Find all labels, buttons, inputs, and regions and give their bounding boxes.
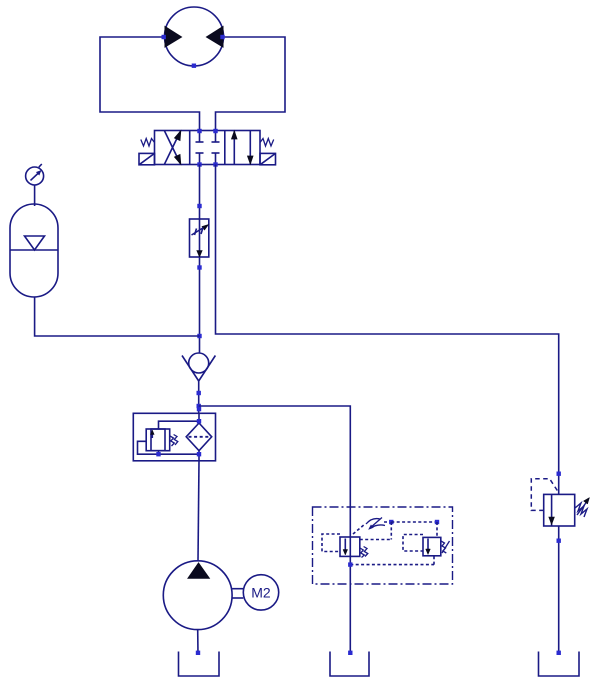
wire throttle to junction <box>199 257 201 353</box>
node dot branch junction <box>197 404 201 408</box>
pilot valve 2 dashed loop <box>403 535 423 552</box>
accumulator shell <box>10 204 58 297</box>
pilot valve 2 arrow <box>427 539 429 553</box>
node dot pilot junction 2 <box>435 520 439 524</box>
pilot valve 1 arrow <box>344 539 346 554</box>
node dot motor bottom <box>192 64 196 68</box>
pump shaft coupling <box>232 588 243 590</box>
relief valve body <box>544 494 575 526</box>
electric motor M2 <box>243 575 278 610</box>
wire motor loop right (port B) <box>216 37 286 131</box>
valve left position crossed arrows <box>164 131 181 165</box>
bypass valve spring <box>170 436 174 446</box>
node dot pilot junction 1 <box>389 520 393 524</box>
node dot drain junction <box>348 562 352 566</box>
node dot filter top junction <box>197 419 201 423</box>
pilot line junction down <box>390 522 392 540</box>
pilot valve 1 spring <box>360 548 364 558</box>
node dot below relief valve <box>557 539 561 543</box>
accumulator gas triangle <box>25 236 45 250</box>
bypass valve flow arrow <box>151 432 153 438</box>
wire valve B-port down and across to relief valve <box>216 165 559 495</box>
node dot above filter box <box>197 407 201 411</box>
tank 3 (right) <box>539 652 580 677</box>
wire motor loop left (port A) <box>100 37 200 131</box>
wire filter to pump <box>198 461 199 561</box>
hydraulic motor M1 circle <box>165 7 224 66</box>
node dot above throttle <box>197 204 201 208</box>
wire check valve to filter <box>198 381 200 413</box>
pilot valve 2 body <box>423 537 441 555</box>
throttle bottom flow arrow <box>197 251 202 258</box>
wire valve A-port down to throttle <box>199 165 201 220</box>
tank 1 (pump suction) <box>179 652 220 677</box>
pressure gauge <box>26 167 44 185</box>
node dot above relief valve <box>557 472 561 476</box>
check valve <box>189 353 209 373</box>
valve right solenoid <box>260 153 276 164</box>
node dot filter bottom junction <box>197 452 201 456</box>
node dot below check valve <box>197 391 201 395</box>
directional valve 4/3 body <box>155 131 261 165</box>
svg-text:M2: M2 <box>251 585 271 601</box>
valve right spring <box>260 139 274 147</box>
relief valve spring <box>575 503 587 517</box>
pilot valve 1 dashed loop <box>322 534 340 552</box>
orifice symbol in pilot line <box>366 519 380 524</box>
filter diamond <box>186 423 212 451</box>
bypass valve squares <box>146 429 165 451</box>
node dot accumulator junction <box>197 334 201 338</box>
pilot line up from valve 1 <box>353 524 365 534</box>
relief valve flow line and arrow <box>551 494 553 526</box>
node dot right tank entry <box>557 651 561 655</box>
bypass pilot top <box>159 421 200 429</box>
accumulator gas line <box>10 249 58 251</box>
sequence valve block dash-dot border <box>313 507 453 584</box>
pilot line junction right <box>391 521 437 523</box>
relief valve pilot dashed <box>531 479 558 511</box>
pilot drain dashed bottom <box>350 564 434 566</box>
wire accumulator to main line <box>35 297 200 336</box>
pilot line to junction <box>384 521 391 523</box>
filter unit outer box <box>133 413 215 461</box>
valve right position parallel arrows <box>232 131 254 165</box>
node dot bypass bottom <box>156 452 160 456</box>
valve left solenoid <box>139 153 155 164</box>
relief valve adjust arrow <box>577 500 588 515</box>
filter element dashed line <box>189 436 210 438</box>
bypass pilot bottom <box>158 451 160 455</box>
throttle diagonal arrow <box>192 226 207 235</box>
wire pump to tank <box>197 630 199 655</box>
node dot pump tank entry <box>196 651 200 655</box>
pump flow triangle <box>188 563 209 578</box>
valve left spring <box>141 139 155 147</box>
tank 2 (middle) <box>330 652 369 677</box>
node dot middle tank entry <box>348 651 352 655</box>
wire relief valve to tank <box>558 526 560 655</box>
node dot motor right port <box>220 35 224 39</box>
filter main line through <box>198 413 200 423</box>
motor left arrow (solid triangle) <box>165 27 182 48</box>
wire branch to sequence block <box>199 406 351 652</box>
valve centre position blocked ports <box>196 131 220 165</box>
node dot below throttle <box>197 265 201 269</box>
pump circle <box>163 561 232 630</box>
motor right arrow (solid triangle) <box>207 27 224 48</box>
pilot valve 1 body <box>340 537 360 556</box>
pilot valve 2 spring <box>441 541 446 553</box>
node dot motor left port <box>162 35 166 39</box>
node dots valve ports <box>197 129 201 133</box>
throttle (flow control) valve body <box>190 219 209 257</box>
wire gauge to accumulator <box>34 185 36 206</box>
